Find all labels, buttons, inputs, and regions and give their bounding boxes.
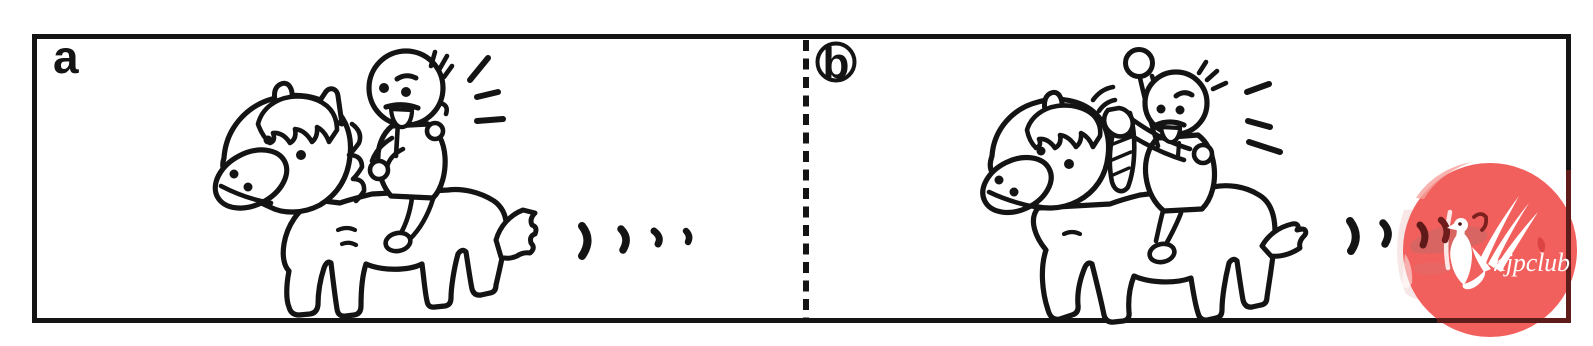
logo white brush gap streak xyxy=(1446,212,1450,268)
speed marks B xyxy=(1350,221,1356,251)
rider A fist xyxy=(370,161,388,179)
horse B mouth line xyxy=(989,192,1040,208)
emphasis lines A xyxy=(470,58,488,80)
rider B head xyxy=(1145,72,1207,134)
border through logo bottom xyxy=(1437,318,1571,323)
rider B foot xyxy=(1148,242,1176,265)
horse B ear xyxy=(1044,92,1062,120)
rider B eyebrow xyxy=(1176,93,1192,96)
horse A muzzle xyxy=(205,138,297,220)
rider A arm to mane xyxy=(372,138,392,161)
logo brush top swirl xyxy=(1416,162,1472,199)
horse B body with legs xyxy=(1033,186,1275,322)
emphasis lines B xyxy=(1247,84,1269,92)
rider A ear xyxy=(440,103,447,114)
horse B tail xyxy=(1262,224,1306,256)
dashed panel divider xyxy=(803,40,809,318)
logo bird wing feather 2 xyxy=(1488,203,1529,268)
logo bird neck xyxy=(1456,229,1465,238)
logo pink wash left xyxy=(1397,208,1446,300)
rider B leg xyxy=(1156,211,1163,241)
horse A tail xyxy=(496,210,536,258)
rider B raised arm xyxy=(1140,78,1158,146)
horse B head xyxy=(990,99,1108,208)
horse B eyes xyxy=(1037,147,1046,156)
horse A right ear xyxy=(311,89,342,124)
rider A head xyxy=(369,51,443,125)
logo bird beak xyxy=(1447,223,1456,230)
label b circled xyxy=(818,44,855,81)
rider A eyebrow xyxy=(397,76,416,79)
logo bird wing base xyxy=(1472,247,1491,272)
rider A eyes xyxy=(379,83,389,93)
horse A nostrils xyxy=(230,170,239,179)
rider A hair spikes xyxy=(431,52,435,66)
horse B forelock xyxy=(1027,105,1100,148)
svg-text:b: b xyxy=(823,39,850,88)
rider A foot xyxy=(384,231,412,254)
rider B mouth xyxy=(1161,127,1180,142)
speed marks A xyxy=(582,226,588,256)
speed mark 4 under logo xyxy=(1441,220,1447,240)
rider B chin line xyxy=(1178,143,1179,156)
horse A head xyxy=(223,95,351,212)
logo red circle xyxy=(1403,163,1577,337)
panel frame border xyxy=(35,37,1569,321)
logo bird tail swoosh xyxy=(1463,270,1486,289)
horse A forelock xyxy=(258,97,337,144)
logo bird wing feather 1 xyxy=(1480,196,1519,263)
rider B grip hand xyxy=(1104,108,1133,136)
rider B shoulder button xyxy=(1194,145,1212,163)
border through logo right xyxy=(1566,170,1571,323)
dark curl near bird head xyxy=(1474,214,1486,230)
horse B mane feather xyxy=(1110,112,1134,191)
rider A leg xyxy=(401,198,412,233)
watermark logo xyxy=(1397,162,1577,337)
speed mark 3 under logo xyxy=(1420,225,1425,245)
horse A neck mane zigzag xyxy=(349,124,364,201)
rider B hair spikes xyxy=(1199,62,1206,73)
horse A mouth line xyxy=(221,186,271,203)
svg-text:a: a xyxy=(53,31,79,83)
rider B body xyxy=(1146,135,1215,211)
svg-text:njpclub: njpclub xyxy=(1493,248,1570,277)
logo ragged left edge gap xyxy=(1402,254,1412,288)
horse A body with legs xyxy=(283,189,506,316)
logo bird head xyxy=(1454,218,1468,232)
rider A front line xyxy=(396,122,398,156)
rider B wave arcs xyxy=(1093,87,1113,100)
rider A body xyxy=(378,124,445,198)
horse A eyes xyxy=(264,136,273,145)
logo red blotch near wing xyxy=(1538,237,1545,253)
horse B nostrils xyxy=(995,176,1004,185)
horse A left ear xyxy=(274,83,292,109)
logo bird wing feather 3 xyxy=(1495,212,1538,272)
logo bird body xyxy=(1450,231,1472,285)
rider B eyes xyxy=(1157,105,1166,114)
logo gray smudge band xyxy=(1410,225,1487,253)
horse A chest marks xyxy=(338,228,355,230)
horse B chest marks xyxy=(1064,232,1080,234)
logo bird eye xyxy=(1458,222,1462,226)
logo gray smudge lower xyxy=(1412,262,1455,274)
rider A mouth xyxy=(391,109,412,127)
rider B raised fist xyxy=(1126,50,1153,77)
rider A button xyxy=(427,123,443,139)
rider B cross arm xyxy=(1133,120,1190,149)
horse B muzzle xyxy=(974,147,1061,224)
